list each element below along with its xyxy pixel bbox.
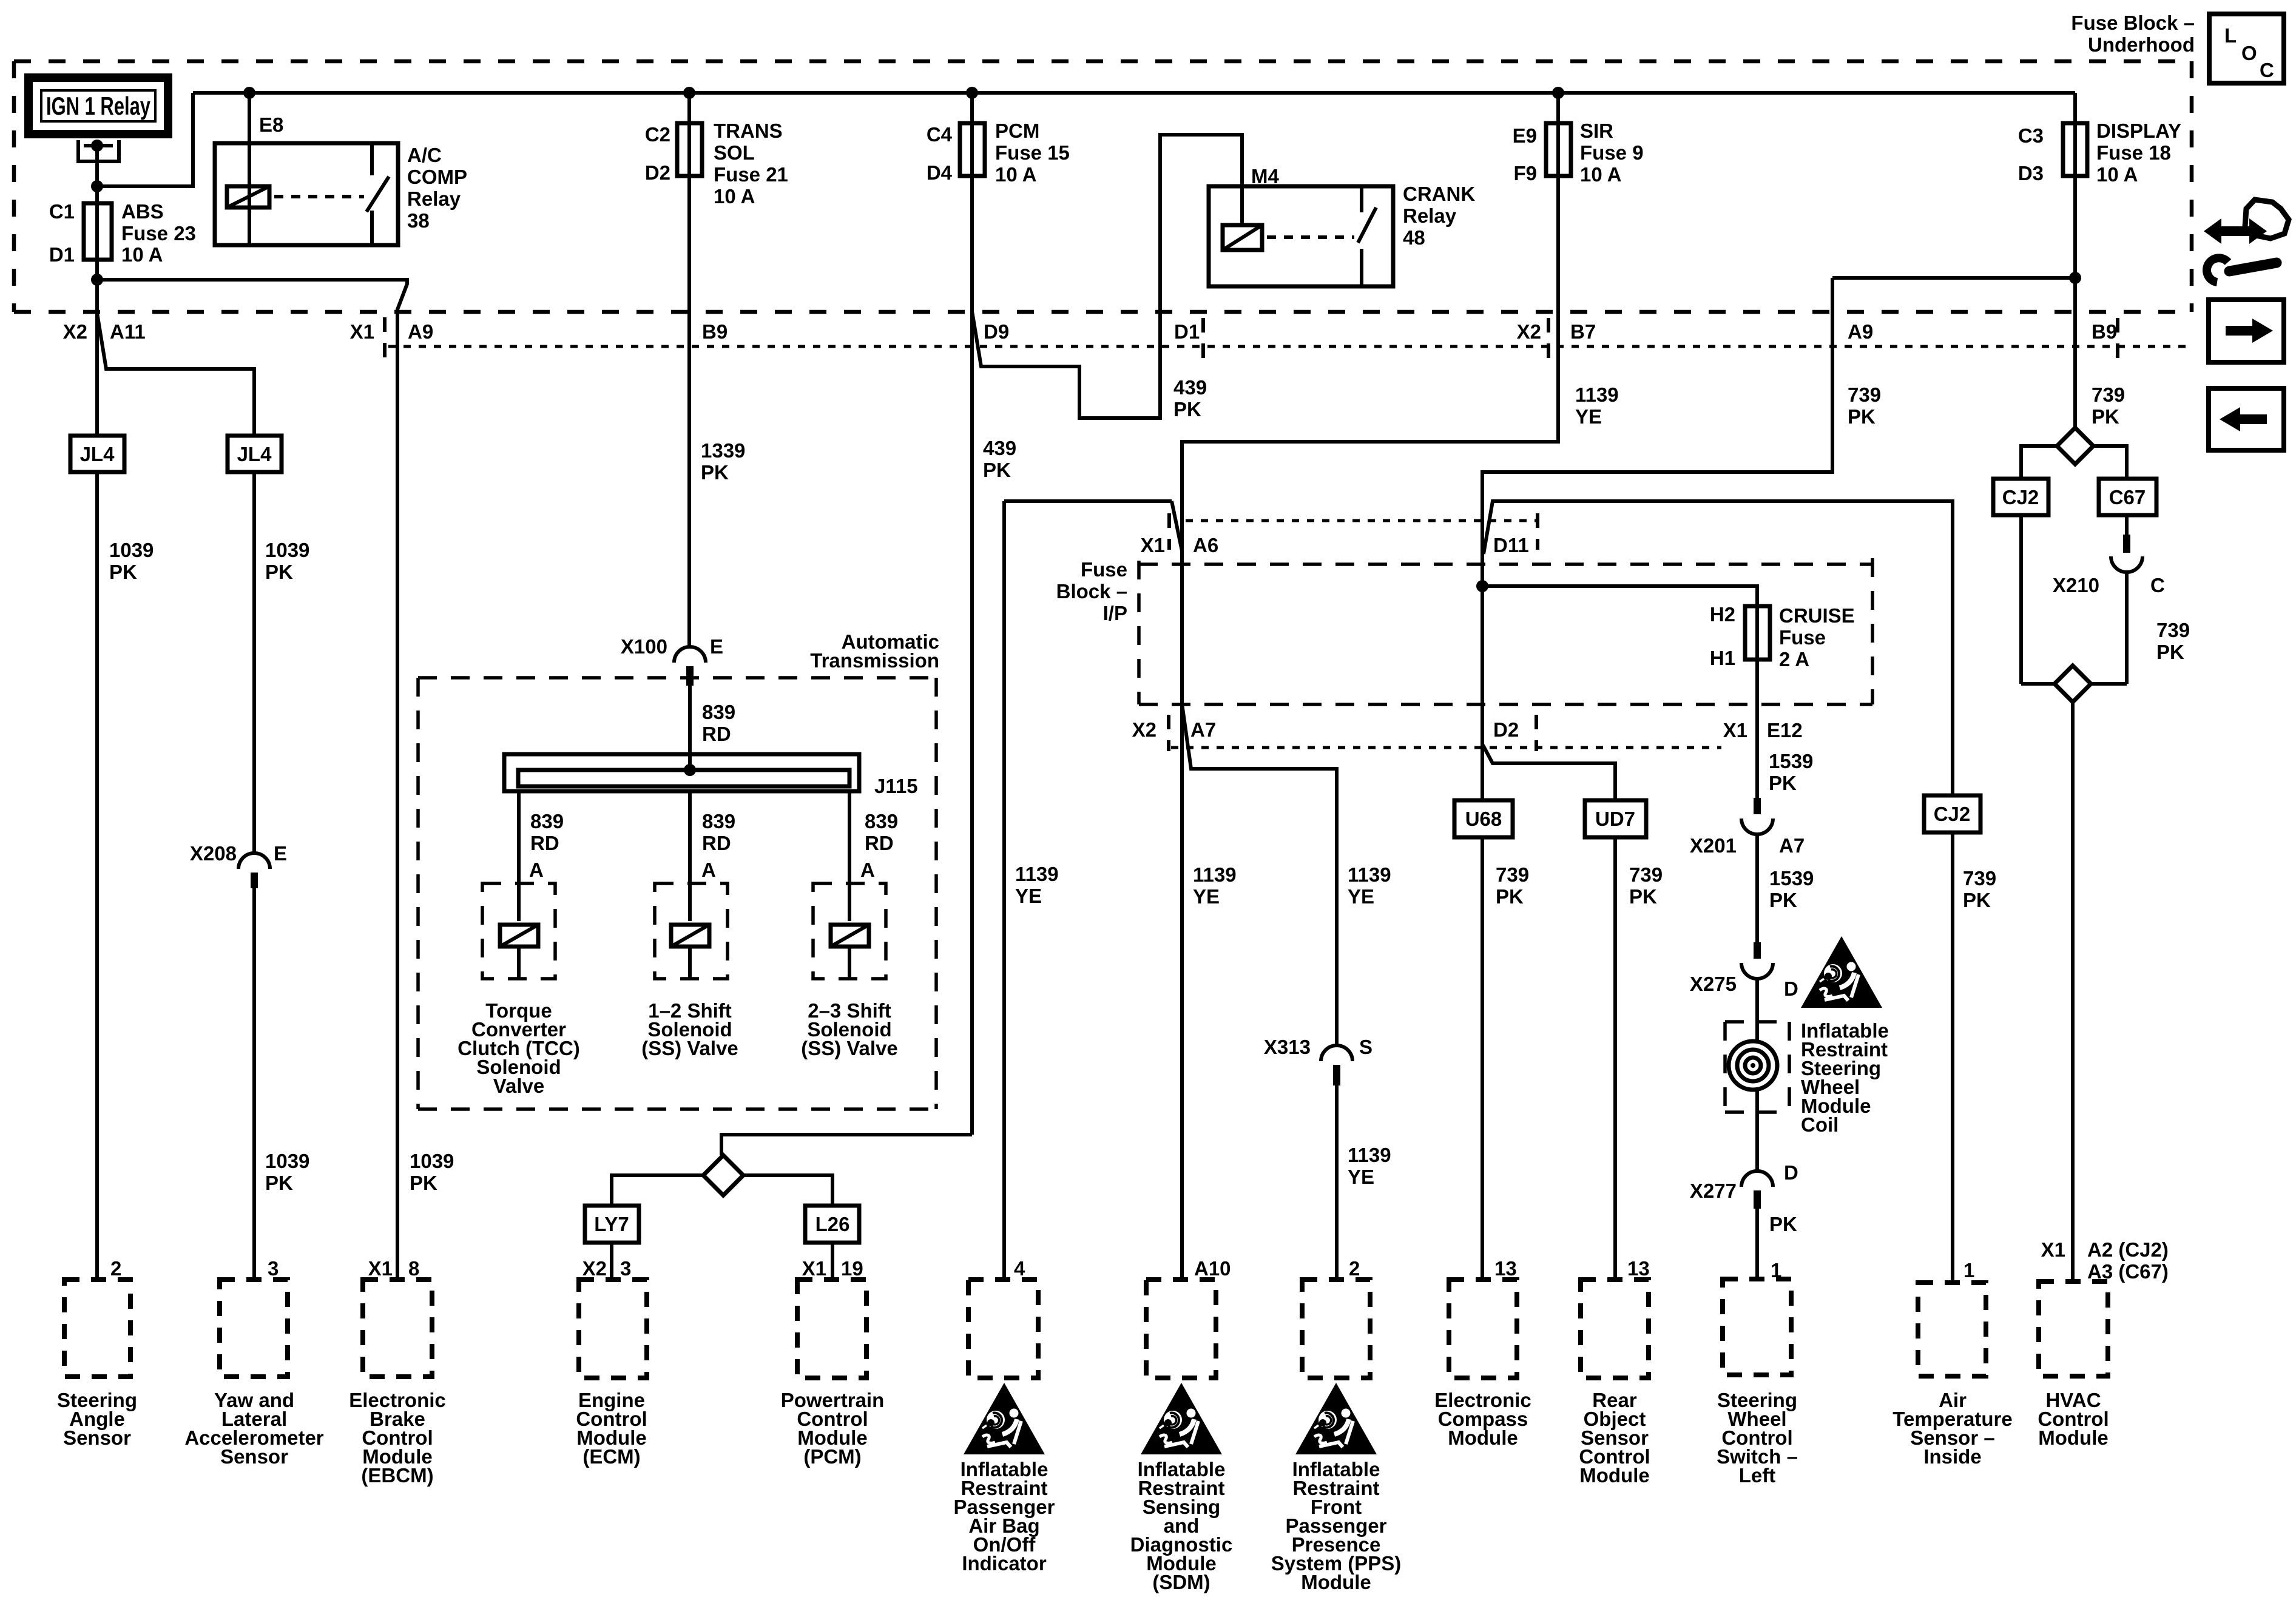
svg-text:(ECM): (ECM) bbox=[582, 1445, 640, 1468]
svg-text:1339: 1339 bbox=[701, 439, 745, 462]
svg-text:X1: X1 bbox=[1141, 534, 1165, 556]
svg-text:C3: C3 bbox=[2018, 124, 2044, 147]
svg-text:1039: 1039 bbox=[109, 539, 154, 561]
svg-text:Transmission: Transmission bbox=[810, 649, 939, 672]
svg-text:739: 739 bbox=[1496, 863, 1529, 886]
svg-text:1039: 1039 bbox=[265, 539, 309, 561]
svg-text:D2: D2 bbox=[645, 161, 670, 184]
svg-text:D1: D1 bbox=[1174, 320, 1200, 343]
svg-text:X1: X1 bbox=[350, 320, 374, 343]
svg-text:38: 38 bbox=[407, 209, 430, 232]
svg-text:10 A: 10 A bbox=[714, 185, 755, 208]
svg-text:YE: YE bbox=[1348, 1166, 1374, 1188]
svg-text:C1: C1 bbox=[49, 200, 75, 223]
svg-text:739: 739 bbox=[1629, 863, 1663, 886]
svg-text:X1: X1 bbox=[1723, 719, 1747, 741]
svg-text:X1: X1 bbox=[802, 1257, 826, 1280]
svg-text:2: 2 bbox=[1349, 1257, 1360, 1280]
svg-text:Fuse 23: Fuse 23 bbox=[121, 222, 196, 245]
svg-text:L26: L26 bbox=[815, 1213, 850, 1235]
svg-text:A: A bbox=[860, 859, 875, 881]
svg-text:Sensor: Sensor bbox=[220, 1445, 288, 1468]
svg-text:(SS) Valve: (SS) Valve bbox=[641, 1037, 738, 1059]
svg-text:X2: X2 bbox=[582, 1257, 607, 1280]
svg-text:D4: D4 bbox=[927, 161, 953, 184]
svg-text:Fuse: Fuse bbox=[1081, 558, 1127, 581]
svg-text:PK: PK bbox=[1769, 889, 1797, 911]
svg-text:RD: RD bbox=[702, 832, 731, 854]
svg-text:CJ2: CJ2 bbox=[1934, 803, 1971, 825]
svg-text:2 A: 2 A bbox=[1779, 648, 1809, 670]
svg-text:10 A: 10 A bbox=[2096, 163, 2138, 186]
svg-text:1139: 1139 bbox=[1575, 383, 1619, 406]
svg-text:48: 48 bbox=[1403, 226, 1425, 249]
svg-text:439: 439 bbox=[983, 437, 1016, 459]
svg-text:H1: H1 bbox=[1710, 647, 1735, 669]
svg-text:Relay: Relay bbox=[407, 187, 461, 210]
svg-text:A7: A7 bbox=[1190, 718, 1216, 741]
svg-text:A11: A11 bbox=[110, 320, 146, 343]
svg-text:X201: X201 bbox=[1690, 834, 1737, 857]
svg-text:IGN 1 Relay: IGN 1 Relay bbox=[46, 92, 150, 120]
svg-text:Underhood: Underhood bbox=[2088, 33, 2195, 56]
svg-text:COMP: COMP bbox=[407, 166, 467, 188]
svg-text:B9: B9 bbox=[2092, 320, 2117, 343]
svg-text:Module: Module bbox=[1301, 1571, 1371, 1593]
svg-text:1539: 1539 bbox=[1769, 750, 1813, 772]
svg-text:13: 13 bbox=[1627, 1257, 1650, 1280]
svg-text:(SS) Valve: (SS) Valve bbox=[801, 1037, 898, 1059]
svg-text:(EBCM): (EBCM) bbox=[361, 1464, 433, 1487]
svg-text:D: D bbox=[1784, 977, 1798, 1000]
svg-text:RD: RD bbox=[530, 832, 559, 854]
svg-text:(SDM): (SDM) bbox=[1152, 1571, 1210, 1593]
svg-text:10 A: 10 A bbox=[995, 163, 1036, 186]
svg-text:PK: PK bbox=[109, 561, 137, 583]
svg-text:X100: X100 bbox=[621, 635, 667, 658]
svg-text:PCM: PCM bbox=[995, 120, 1039, 142]
svg-text:D9: D9 bbox=[984, 320, 1009, 343]
svg-text:X2: X2 bbox=[1517, 320, 1541, 343]
svg-text:Fuse 9: Fuse 9 bbox=[1580, 141, 1644, 164]
svg-text:H2: H2 bbox=[1710, 603, 1735, 626]
svg-text:Sensor: Sensor bbox=[63, 1426, 131, 1449]
svg-text:Fuse 18: Fuse 18 bbox=[2096, 141, 2171, 164]
svg-text:X2: X2 bbox=[1132, 718, 1156, 741]
svg-text:4: 4 bbox=[1014, 1257, 1025, 1280]
svg-text:TRANS: TRANS bbox=[714, 120, 783, 142]
svg-text:PK: PK bbox=[1496, 885, 1524, 908]
svg-text:B7: B7 bbox=[1570, 320, 1596, 343]
svg-text:Left: Left bbox=[1739, 1464, 1776, 1487]
svg-text:YE: YE bbox=[1575, 405, 1602, 428]
svg-text:Fuse: Fuse bbox=[1779, 626, 1826, 649]
svg-text:839: 839 bbox=[702, 810, 735, 832]
svg-text:19: 19 bbox=[841, 1257, 863, 1280]
svg-text:Inside: Inside bbox=[1923, 1445, 1981, 1468]
svg-text:A7: A7 bbox=[1779, 834, 1805, 857]
svg-text:1139: 1139 bbox=[1193, 863, 1237, 886]
svg-text:X277: X277 bbox=[1690, 1180, 1737, 1202]
svg-text:PK: PK bbox=[1769, 1213, 1797, 1235]
svg-text:X275: X275 bbox=[1690, 973, 1737, 995]
svg-text:839: 839 bbox=[530, 810, 564, 832]
svg-text:C: C bbox=[2260, 59, 2274, 81]
svg-text:E: E bbox=[274, 842, 287, 865]
svg-text:JL4: JL4 bbox=[80, 443, 115, 465]
svg-text:E8: E8 bbox=[259, 113, 283, 136]
svg-text:RD: RD bbox=[702, 723, 731, 745]
svg-text:Module: Module bbox=[2038, 1426, 2108, 1449]
svg-text:U68: U68 bbox=[1465, 808, 1502, 830]
svg-text:Relay: Relay bbox=[1403, 204, 1457, 227]
svg-text:PK: PK bbox=[1769, 772, 1797, 794]
svg-text:PK: PK bbox=[265, 1172, 293, 1194]
svg-text:A6: A6 bbox=[1193, 534, 1218, 556]
svg-text:D3: D3 bbox=[2018, 162, 2044, 184]
svg-text:E9: E9 bbox=[1513, 124, 1537, 147]
svg-text:Module: Module bbox=[1448, 1426, 1518, 1449]
svg-text:F9: F9 bbox=[1513, 162, 1537, 184]
svg-text:J115: J115 bbox=[874, 775, 918, 797]
svg-text:C: C bbox=[2150, 574, 2165, 596]
svg-text:SIR: SIR bbox=[1580, 120, 1613, 142]
svg-text:YE: YE bbox=[1348, 885, 1374, 908]
svg-text:X208: X208 bbox=[190, 842, 237, 865]
svg-text:Fuse Block –: Fuse Block – bbox=[2071, 12, 2195, 34]
svg-text:1139: 1139 bbox=[1348, 1144, 1391, 1166]
svg-text:2: 2 bbox=[110, 1257, 121, 1280]
svg-text:X2: X2 bbox=[63, 320, 87, 343]
svg-text:YE: YE bbox=[1015, 885, 1042, 907]
svg-text:O: O bbox=[2241, 42, 2257, 64]
svg-text:E: E bbox=[710, 635, 723, 658]
svg-text:X1: X1 bbox=[2041, 1238, 2065, 1261]
svg-text:X210: X210 bbox=[2053, 574, 2099, 596]
svg-text:1139: 1139 bbox=[1348, 863, 1391, 886]
svg-text:C2: C2 bbox=[645, 123, 670, 146]
svg-text:439: 439 bbox=[1173, 376, 1207, 399]
svg-text:Coil: Coil bbox=[1801, 1113, 1838, 1136]
svg-text:DISPLAY: DISPLAY bbox=[2096, 120, 2181, 142]
svg-text:Fuse 15: Fuse 15 bbox=[995, 141, 1070, 164]
svg-text:Indicator: Indicator bbox=[962, 1552, 1047, 1575]
svg-text:Module: Module bbox=[1579, 1464, 1649, 1487]
svg-text:739: 739 bbox=[2156, 619, 2190, 641]
svg-text:A/C: A/C bbox=[407, 144, 442, 166]
svg-text:PK: PK bbox=[2092, 405, 2119, 428]
svg-text:SOL: SOL bbox=[714, 141, 755, 164]
svg-text:Block –: Block – bbox=[1056, 580, 1127, 603]
svg-text:1139: 1139 bbox=[1015, 863, 1059, 885]
svg-text:C4: C4 bbox=[927, 123, 953, 146]
svg-text:Valve: Valve bbox=[493, 1075, 544, 1097]
svg-text:PK: PK bbox=[1848, 405, 1876, 428]
svg-text:1039: 1039 bbox=[410, 1150, 454, 1172]
svg-text:PK: PK bbox=[1963, 889, 1991, 911]
svg-text:PK: PK bbox=[1629, 885, 1657, 908]
svg-text:10 A: 10 A bbox=[1580, 163, 1621, 186]
svg-text:3: 3 bbox=[268, 1257, 279, 1280]
svg-text:ABS: ABS bbox=[121, 200, 164, 223]
svg-text:X313: X313 bbox=[1264, 1036, 1311, 1058]
svg-text:A9: A9 bbox=[1848, 320, 1873, 343]
svg-text:PK: PK bbox=[1173, 398, 1201, 420]
svg-text:X1: X1 bbox=[368, 1257, 393, 1280]
svg-text:CJ2: CJ2 bbox=[2002, 486, 2039, 508]
svg-text:A2 (CJ2): A2 (CJ2) bbox=[2087, 1238, 2169, 1261]
svg-text:739: 739 bbox=[1848, 383, 1881, 406]
svg-text:LY7: LY7 bbox=[594, 1213, 629, 1235]
svg-text:D2: D2 bbox=[1493, 718, 1519, 741]
svg-text:A: A bbox=[529, 859, 544, 881]
svg-text:1039: 1039 bbox=[265, 1150, 309, 1172]
svg-text:PK: PK bbox=[265, 561, 293, 583]
svg-text:739: 739 bbox=[2092, 383, 2125, 406]
svg-text:PK: PK bbox=[2156, 641, 2184, 663]
svg-text:CRANK: CRANK bbox=[1403, 183, 1475, 205]
svg-text:839: 839 bbox=[702, 701, 735, 723]
svg-text:1: 1 bbox=[1963, 1259, 1974, 1281]
svg-text:PK: PK bbox=[410, 1172, 437, 1194]
svg-text:JL4: JL4 bbox=[237, 443, 272, 465]
svg-text:D11: D11 bbox=[1493, 534, 1529, 556]
svg-text:A: A bbox=[701, 859, 716, 881]
svg-text:B9: B9 bbox=[702, 320, 728, 343]
svg-text:M4: M4 bbox=[1251, 165, 1279, 187]
svg-text:YE: YE bbox=[1193, 885, 1220, 908]
svg-text:Fuse 21: Fuse 21 bbox=[714, 163, 788, 186]
svg-text:A10: A10 bbox=[1194, 1257, 1231, 1280]
svg-text:739: 739 bbox=[1963, 867, 1996, 890]
svg-text:RD: RD bbox=[865, 832, 894, 854]
svg-text:L: L bbox=[2224, 24, 2237, 47]
svg-text:D: D bbox=[1784, 1161, 1798, 1184]
svg-text:8: 8 bbox=[408, 1257, 419, 1280]
svg-text:PK: PK bbox=[701, 461, 729, 484]
svg-text:(PCM): (PCM) bbox=[803, 1445, 861, 1468]
svg-text:A9: A9 bbox=[408, 320, 433, 343]
svg-text:1539: 1539 bbox=[1769, 867, 1814, 890]
svg-text:I/P: I/P bbox=[1103, 602, 1127, 624]
svg-text:13: 13 bbox=[1494, 1257, 1517, 1280]
svg-text:3: 3 bbox=[620, 1257, 631, 1280]
svg-text:E12: E12 bbox=[1767, 719, 1803, 741]
svg-text:PK: PK bbox=[983, 459, 1011, 481]
svg-text:S: S bbox=[1359, 1036, 1373, 1058]
svg-text:UD7: UD7 bbox=[1595, 808, 1635, 830]
svg-text:CRUISE: CRUISE bbox=[1779, 604, 1855, 627]
svg-text:C67: C67 bbox=[2109, 486, 2146, 508]
svg-text:10 A: 10 A bbox=[121, 243, 163, 266]
svg-text:D1: D1 bbox=[49, 243, 75, 266]
svg-text:839: 839 bbox=[865, 810, 898, 832]
